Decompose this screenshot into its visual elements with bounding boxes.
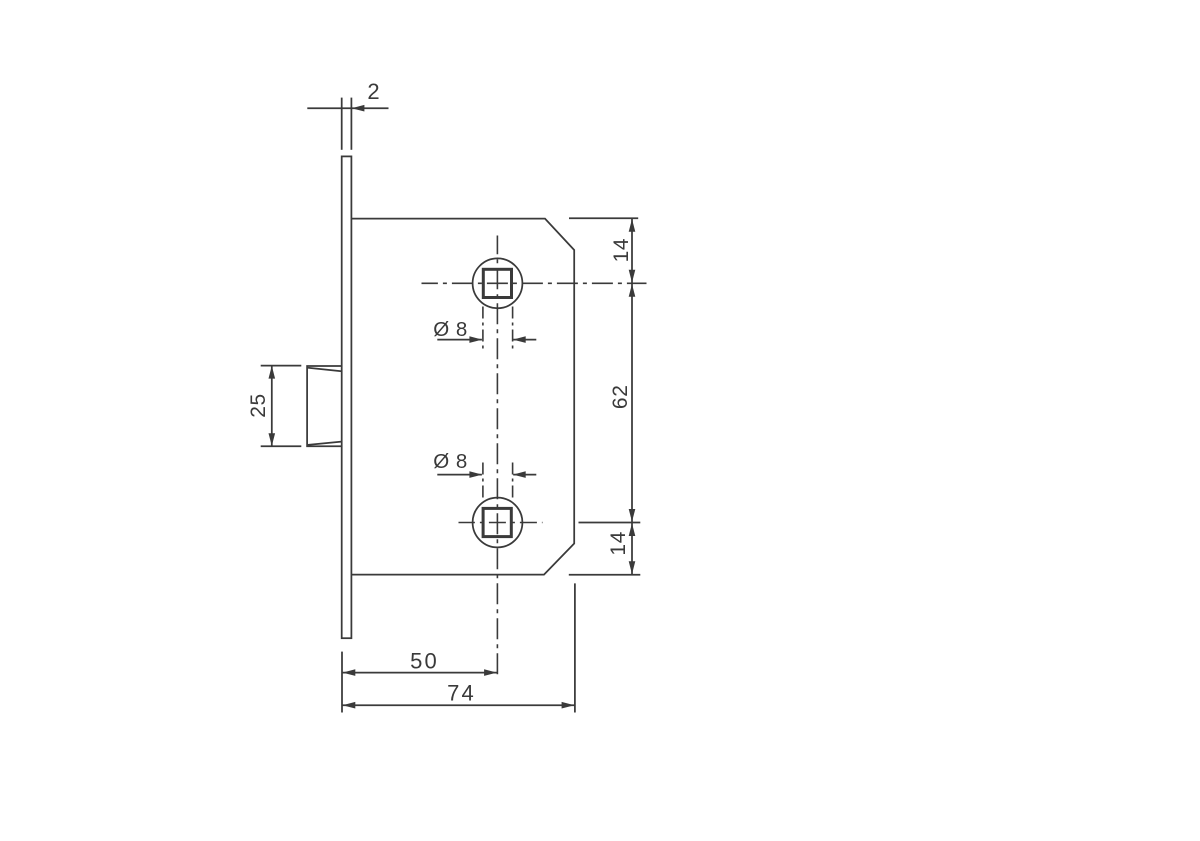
25mm dimension line [271, 366, 273, 447]
arrowhead lower 8mm left [513, 471, 526, 478]
arrowhead 50 right [484, 669, 497, 676]
lower spindle hole circle [473, 498, 523, 548]
arrowhead 50 left [343, 669, 356, 676]
svg-text:14: 14 [607, 531, 630, 556]
upper hole 8mm dimension arrow lines [437, 339, 482, 341]
arrowhead 14 bottom down [629, 561, 636, 574]
arrowhead 62 up [629, 284, 636, 297]
arrowhead 14 top down [629, 270, 636, 283]
upper hole horizontal centerline [422, 282, 647, 284]
bottom-left extension line (faceplate left edge) [341, 652, 343, 713]
lower hole 8mm extension lines [482, 463, 484, 498]
lower hole 8mm dimension arrow lines [437, 474, 482, 476]
vertical centerline through holes [496, 236, 498, 679]
arrowhead 14 bottom up [629, 523, 636, 536]
right dimension line: 14 top segment [631, 218, 633, 283]
svg-text:74: 74 [447, 680, 476, 705]
lock body outline with chamfered right corners [352, 219, 574, 575]
25mm dimension extension lines [261, 365, 302, 367]
right dimension line: 14 bottom segment [631, 523, 633, 575]
upper spindle hole circle [473, 258, 523, 308]
arrowhead upper 8mm right [469, 336, 482, 343]
arrowhead 14 top up [629, 219, 636, 232]
arrowhead upper 8mm left [513, 336, 526, 343]
bottom-right extension line (body right edge) [574, 583, 576, 712]
arrowhead 62 down [629, 509, 636, 522]
2mm dimension line with left-pointing arrow [307, 107, 351, 109]
arrowhead 74 right [562, 702, 575, 709]
arrowhead lower 8mm right [469, 471, 482, 478]
extension lines above faceplate for 2mm dimension [341, 98, 343, 150]
svg-text:2: 2 [367, 79, 379, 104]
upper square spindle hole [483, 269, 511, 297]
latch bolt (25mm protrusion) outline [307, 366, 341, 446]
arrowhead 25mm up [269, 366, 276, 379]
arrowhead 2mm pointing left [352, 105, 365, 112]
svg-text:25: 25 [247, 393, 270, 418]
latch bolt top bevel line [308, 368, 342, 372]
svg-text:50: 50 [410, 648, 439, 673]
lower square spindle hole [483, 508, 511, 536]
svg-text:Ø 8: Ø 8 [433, 450, 468, 473]
lower hole horizontal centerline [459, 522, 543, 524]
right dimension line: 62 segment [631, 283, 633, 522]
upper hole 8mm extension lines [482, 307, 484, 353]
50mm dimension line [342, 672, 497, 674]
arrowhead 25mm down [269, 433, 276, 446]
bottom-right extension line (body bottom edge) [569, 574, 641, 576]
svg-text:62: 62 [609, 385, 632, 410]
svg-text:14: 14 [610, 238, 633, 263]
svg-text:Ø 8: Ø 8 [433, 318, 468, 341]
faceplate (front plate, side view) [342, 156, 352, 638]
74mm dimension line [342, 704, 575, 706]
arrowhead 74 left [343, 702, 356, 709]
mid-right extension line (lower hole centerline) [579, 522, 641, 524]
latch bolt bottom bevel line [308, 442, 342, 445]
top-right extension line (body top edge) [569, 217, 638, 219]
